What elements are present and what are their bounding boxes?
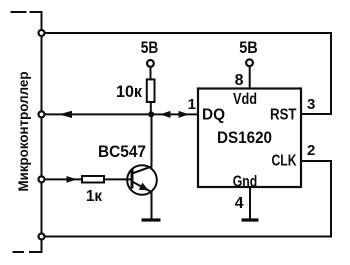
- node 5V supply terminal above Vdd: [239, 39, 258, 66]
- wire 5V to DS1620 Vdd pin8: [249, 67, 251, 89]
- svg-text:Gnd: Gnd: [233, 173, 258, 190]
- wire Q1 emitter to ground: [151, 192, 153, 219]
- svg-text:1: 1: [188, 96, 196, 113]
- wire top RST net: MCU pin1 to DS1620 RST pin3: [42, 33, 332, 114]
- arrow DQ toward MCU inner: [160, 111, 171, 118]
- resistor R2 1k: [82, 176, 104, 205]
- svg-text:4: 4: [235, 195, 244, 212]
- ground below DS1620 Gnd pin: [242, 218, 259, 221]
- transistor Q1 BC547: [98, 143, 157, 195]
- node 5V supply terminal above 10k: [141, 39, 159, 67]
- svg-text:RST: RST: [270, 107, 297, 124]
- IC U1 DS1620: [198, 89, 301, 191]
- wire dashed top-left MCU boundary: [11, 11, 42, 33]
- svg-text:5В: 5В: [141, 39, 159, 57]
- ground below Q1 emitter: [142, 218, 161, 221]
- arrow DQ toward DS1620: [179, 111, 190, 118]
- svg-text:2: 2: [307, 142, 315, 159]
- arrow base drive toward 1k: [67, 176, 78, 183]
- junction DQ node with collector and 10k: [148, 111, 154, 117]
- node MCU terminal pin 4: [39, 234, 45, 240]
- svg-text:5В: 5В: [239, 39, 258, 57]
- node MCU terminal pin 1: [39, 30, 45, 36]
- wire Q1 collector to DQ node: [151, 114, 153, 167]
- wire DS1620 Gnd pin4 to ground: [249, 187, 251, 219]
- wire 5V to 10k resistor top: [150, 67, 152, 79]
- svg-text:10к: 10к: [116, 82, 142, 101]
- resistor R1 10k: [116, 79, 155, 102]
- wire dashed bottom-left MCU boundary: [13, 237, 42, 253]
- wire base: MCU pin3 to 1k resistor to Q1 base: [42, 178, 132, 180]
- wire 10k resistor bottom to DQ node: [150, 103, 152, 114]
- svg-text:1к: 1к: [86, 188, 103, 205]
- node MCU terminal pin 2: [39, 111, 45, 117]
- svg-text:CLK: CLK: [272, 153, 297, 170]
- svg-text:Микроконтроллер: Микроконтроллер: [15, 72, 31, 192]
- wire left MCU rail: [41, 33, 43, 237]
- svg-text:BC547: BC547: [98, 143, 146, 161]
- wire CLK net: DS1620 CLK pin2 to MCU pin4: [42, 161, 332, 237]
- svg-text:8: 8: [235, 72, 244, 89]
- svg-text:Vdd: Vdd: [233, 91, 257, 108]
- arrow DQ toward MCU: [59, 111, 72, 118]
- svg-text:3: 3: [307, 96, 315, 113]
- svg-text:DS1620: DS1620: [217, 129, 272, 147]
- node MCU terminal pin 3: [39, 176, 45, 182]
- svg-text:DQ: DQ: [202, 107, 225, 124]
- wire DQ net: MCU pin2 to DS1620 DQ pin1: [42, 113, 199, 115]
